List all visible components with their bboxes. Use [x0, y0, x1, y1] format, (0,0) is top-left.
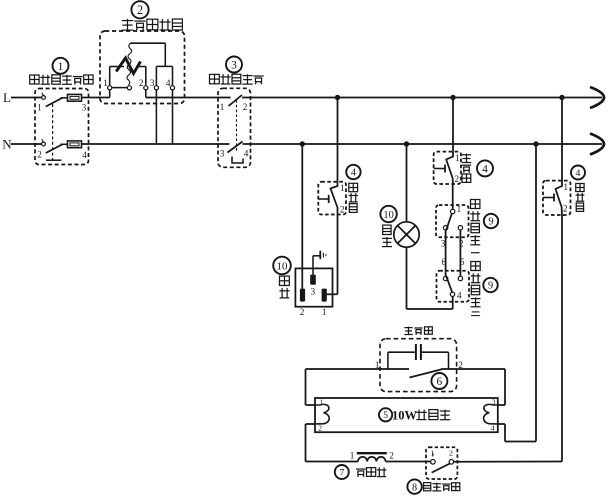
wire cap left: [388, 351, 415, 353]
wire up to tube pin 4: [504, 424, 506, 442]
breaker QF3 blade: [556, 181, 563, 215]
wire switch 8 to right riser: [454, 461, 562, 463]
meter current coil bold zigzag: [116, 58, 140, 74]
socket earth prong: [310, 275, 316, 285]
label circled 7: [335, 465, 349, 479]
label circled 1: [53, 58, 69, 74]
svg-text:4: 4: [82, 150, 87, 160]
svg-text:1: 1: [58, 61, 64, 73]
node junction L-breaker4c: [559, 95, 564, 100]
lamp EL circle: [394, 222, 419, 247]
svg-text:3: 3: [82, 103, 87, 113]
single switch SA3 dashed box: [426, 447, 457, 479]
node junction L-breaker4b: [450, 95, 455, 100]
SA3 terminal 2: [449, 460, 454, 465]
svg-text:1: 1: [319, 398, 323, 407]
svg-text:1: 1: [430, 448, 434, 457]
wire L to breaker 4a: [337, 98, 339, 182]
wire lamp down: [406, 247, 408, 309]
wire SA1-2 to SA2-5: [459, 230, 461, 276]
switch Q1 blade pole N: [46, 145, 62, 154]
protector blade bottom: [228, 142, 243, 153]
fluorescent tube EL1 box: [315, 398, 498, 432]
SA1 terminal 3: [443, 226, 447, 230]
wire meter top: [130, 42, 165, 44]
breaker QF3 dashed box: [543, 181, 571, 215]
wire to tube pin 4 corner: [505, 441, 536, 443]
svg-text:7: 7: [339, 468, 344, 479]
socket prong 2: [300, 289, 305, 302]
wire from tube pin 2: [306, 423, 316, 425]
wire L to breaker 4b: [452, 98, 454, 152]
SA2 terminal 6: [443, 276, 447, 280]
svg-text:2: 2: [455, 174, 460, 184]
wire lamp to switch 9b: [407, 308, 453, 310]
socket prong 1: [322, 289, 327, 302]
svg-text:5: 5: [383, 411, 388, 421]
socket XS box: [295, 268, 332, 306]
two-way switch SA1 dashed box: [436, 205, 469, 237]
SA3 blade: [432, 464, 450, 473]
protector mechanical link: [236, 100, 238, 152]
svg-text:1: 1: [375, 360, 380, 370]
svg-text:10: 10: [277, 260, 289, 272]
svg-text:6: 6: [442, 257, 447, 267]
label 启辉器: [408, 327, 410, 335]
SA1 terminal 2: [458, 226, 462, 230]
wire into tube pin 1: [306, 404, 316, 406]
label 漏电保护器: [210, 74, 220, 83]
svg-text:3: 3: [150, 78, 155, 88]
svg-text:3: 3: [220, 149, 225, 159]
meter P1 dashed box: [100, 31, 185, 104]
node junction L-breaker4a: [335, 95, 340, 100]
svg-text:2: 2: [458, 360, 463, 370]
switch Q1 handle bar: [46, 159, 62, 161]
tube right filament: [484, 404, 498, 424]
wire up to switch 9b pin 4: [452, 296, 454, 309]
switch Q1 terminal 2 hinge: [42, 142, 46, 146]
wire T1-link: [112, 87, 127, 89]
label circled 3: [226, 57, 242, 73]
svg-text:6: 6: [437, 376, 443, 388]
svg-text:3: 3: [231, 60, 237, 72]
svg-text:2: 2: [243, 102, 248, 112]
wire N bus switch to protector: [82, 143, 230, 145]
wire N bus from terminal N to switch S1: [11, 143, 42, 145]
switch Q1 terminal 1 hinge: [42, 96, 46, 100]
svg-text:N: N: [2, 137, 12, 152]
wire breaker 4c down to bottom row: [561, 215, 563, 462]
wire L bus meter T2 to protector: [146, 97, 231, 99]
fuse FU2: [68, 141, 82, 148]
label 双控开关一: [471, 200, 480, 209]
svg-text:4: 4: [491, 423, 495, 432]
wire T1 riser: [109, 67, 111, 86]
label 镇流器: [356, 468, 366, 470]
breaker QF1 dashed box: [318, 182, 346, 215]
tube left filament: [315, 404, 329, 424]
svg-text:8: 8: [412, 482, 417, 493]
wire L bus protector to right arrow: [242, 97, 602, 99]
node junction N-socket: [300, 141, 305, 146]
starter capacitor plates: [415, 344, 417, 360]
label circled 4b: [477, 160, 493, 176]
svg-text:1: 1: [455, 153, 460, 163]
wire row to ballast: [306, 461, 359, 463]
fuse FU1: [68, 94, 82, 101]
wire meter right drop: [164, 43, 166, 66]
label 灯泡: [383, 225, 391, 234]
label 日光灯: [418, 410, 420, 420]
wire T2 stub to L: [145, 90, 147, 98]
wire ballast to switch 8: [386, 461, 431, 463]
svg-text:4: 4: [166, 78, 171, 88]
breaker QF1 handle: [318, 198, 328, 200]
wire L bus fuse to meter T1: [82, 97, 110, 99]
svg-text:2: 2: [563, 204, 568, 214]
wire into socket pin 1: [327, 293, 338, 295]
wire left rail to tube pin 1: [305, 369, 307, 405]
wire blade to fuse N: [61, 143, 68, 145]
svg-text:1: 1: [220, 102, 225, 112]
breaker QF2 dashed box: [434, 152, 461, 184]
label circled 2: [131, 1, 148, 18]
label 双刀胶壳开关: [30, 75, 39, 84]
wire starter row right: [441, 368, 505, 370]
breaker QF1 blade: [331, 182, 338, 215]
SA1 blade: [446, 214, 452, 231]
wire blade to fuse L: [61, 97, 68, 99]
svg-text:1: 1: [322, 307, 327, 317]
svg-text:L: L: [3, 90, 11, 105]
breaker QF2 handle: [434, 168, 445, 170]
SA1 terminal 1: [451, 209, 455, 213]
SA2 terminal 4: [450, 292, 454, 296]
wire N to socket pin 2: [301, 144, 303, 289]
wire T2 riser: [145, 67, 147, 86]
starter S dashed box: [380, 339, 457, 392]
svg-text:9: 9: [488, 281, 493, 292]
svg-text:1: 1: [350, 451, 355, 461]
svg-text:4: 4: [244, 149, 249, 159]
svg-text:1: 1: [103, 78, 108, 88]
wire down to tube pin 3: [504, 369, 506, 405]
SA2 terminal 5: [458, 276, 462, 280]
leakage protector QF dashed box: [218, 88, 251, 167]
wire N drop right: [535, 144, 537, 442]
wire earth prong to PE: [312, 256, 314, 275]
svg-text:4: 4: [351, 168, 356, 179]
wire cap right drop: [448, 352, 450, 369]
svg-text:5: 5: [460, 257, 465, 267]
wire into tube pin 4: [498, 423, 505, 425]
meter terminal circles: [108, 86, 112, 90]
wire breaker 4a to socket: [337, 215, 339, 295]
double-pole switch Q1 dashed box: [35, 89, 89, 165]
svg-text:9: 9: [488, 217, 493, 228]
svg-text:3: 3: [311, 287, 316, 297]
SA2 blade: [446, 276, 452, 293]
svg-text:2: 2: [37, 150, 42, 160]
svg-text:2: 2: [449, 448, 453, 457]
label circled 9a: [484, 214, 498, 228]
ballast core bar: [357, 452, 387, 454]
wire cap left drop: [387, 352, 389, 369]
wire starter row left: [306, 368, 410, 370]
svg-text:2: 2: [300, 307, 305, 317]
wire T3 drop to N: [155, 90, 157, 144]
label circled 9b: [483, 278, 497, 292]
svg-text:2: 2: [389, 451, 394, 461]
wire L bus from terminal L to switch S1: [11, 97, 42, 99]
meter voltage coil squiggle: [127, 43, 132, 85]
breaker QF3 handle: [543, 197, 554, 199]
breaker QF2 blade: [446, 152, 453, 184]
starter switch blade: [410, 369, 442, 377]
label circled 5: [379, 408, 392, 421]
svg-text:2: 2: [139, 78, 144, 88]
switch Q1 blade pole L: [46, 98, 62, 107]
meter voltage rect over T3 T4: [156, 65, 172, 67]
label circled 10 lamp: [380, 206, 396, 222]
svg-text:4: 4: [576, 168, 581, 179]
svg-text:4: 4: [457, 291, 462, 301]
wire cap right: [422, 351, 449, 353]
label circled 4a: [346, 165, 360, 179]
svg-text:4: 4: [482, 163, 488, 175]
svg-text:3: 3: [492, 398, 496, 407]
arrow L line end: [590, 87, 604, 108]
two-way switch SA2 dashed box: [437, 271, 470, 302]
wire L to breaker 4c: [561, 98, 563, 181]
node junction N-tube: [533, 141, 538, 146]
svg-text:2: 2: [340, 205, 345, 215]
ballast L coil humps: [358, 457, 386, 462]
wire into tube pin 3: [498, 404, 505, 406]
SA3 terminal 1: [431, 460, 436, 465]
svg-text:10: 10: [383, 210, 394, 221]
label circled 10 socket: [273, 257, 291, 275]
protector blade top: [229, 95, 243, 106]
label 单相电度表: [127, 19, 129, 30]
label circled 4c: [571, 166, 585, 180]
svg-text:2: 2: [318, 423, 322, 432]
svg-text:2: 2: [137, 3, 143, 17]
node junction N-lamp: [404, 141, 409, 146]
SA3 pin1 tick: [432, 453, 434, 457]
wire T1 stub to L: [109, 90, 111, 98]
wire T4 drop to N: [172, 90, 174, 144]
svg-text:1: 1: [340, 183, 345, 193]
label 插座: [280, 276, 290, 285]
label circled 6: [431, 373, 447, 389]
svg-text:1: 1: [564, 182, 569, 192]
wire breaker 4b to switch 9a: [452, 184, 454, 209]
label 断路器 c: [576, 184, 584, 192]
label circled 8: [407, 479, 421, 493]
label 双控开关二: [471, 262, 480, 271]
wire N to lamp: [406, 144, 408, 222]
protector trip hook: [232, 157, 243, 164]
label 断路器 b: [466, 154, 468, 163]
label 单控开关: [424, 483, 431, 491]
svg-text:1: 1: [457, 204, 462, 214]
wire N bus protector to right arrow: [243, 143, 603, 145]
label 断路器 a: [349, 183, 358, 191]
arrow N line end: [590, 134, 604, 155]
lamp X cross: [398, 226, 416, 244]
wire left rail down to ballast row: [305, 424, 307, 462]
wire SA1-3 to SA2-6: [445, 230, 447, 276]
svg-text:1: 1: [37, 103, 42, 113]
switch Q1 mechanical link: [52, 104, 54, 160]
svg-text:10W: 10W: [392, 408, 418, 422]
ground PE symbol: [319, 251, 321, 260]
